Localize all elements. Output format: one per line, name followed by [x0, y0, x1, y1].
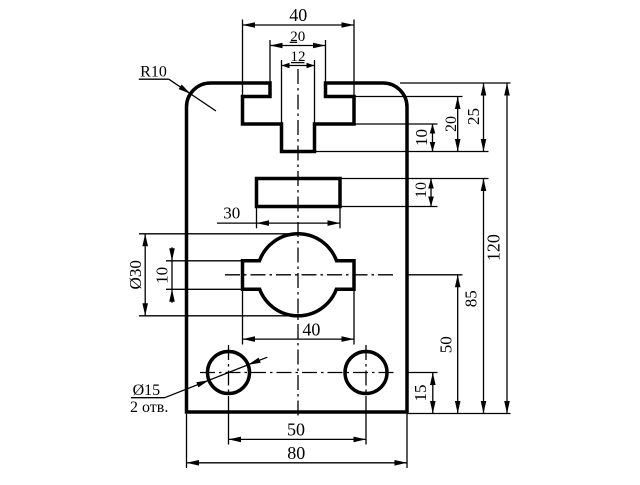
svg-text:80: 80	[287, 443, 305, 463]
hole Ø15 right	[345, 352, 387, 394]
dimension 40 (top slot opening width at step)	[243, 24, 355, 26]
extension line right: rect slot bottom level	[340, 206, 438, 208]
holes horizontal centerline	[200, 372, 398, 374]
extension line left: notch bottom level	[166, 288, 243, 290]
leader R10 with shelf	[139, 78, 169, 80]
svg-text:10: 10	[152, 267, 171, 284]
central hole Ø30 with side notches 40x10	[243, 234, 355, 316]
left hole vertical centerline	[228, 345, 230, 400]
right hole vertical centerline	[365, 345, 367, 400]
extension line mid-40 right	[353, 291, 355, 345]
dimension 30 (rect slot width)	[217, 222, 340, 224]
extension line 50-dim from right hole	[365, 400, 367, 445]
main vertical centerline	[297, 69, 299, 418]
dimension 80 (overall width)	[187, 462, 408, 464]
dimension 25 (slot total depth)	[483, 83, 485, 152]
dimension 50 (holes spacing)	[229, 438, 367, 440]
circle horizontal centerline	[225, 274, 397, 276]
underline of 12	[291, 62, 305, 64]
svg-text:120: 120	[484, 234, 504, 261]
svg-text:50: 50	[436, 336, 455, 353]
extension line 30-dim right	[339, 208, 341, 228]
extension line 12-dim left	[281, 60, 283, 124]
dimension 15 (hole center from bottom)	[432, 373, 434, 414]
extension line mid-40 left	[242, 291, 244, 345]
extension line right: circle center level	[407, 274, 463, 276]
extension line 20-dim left	[269, 40, 271, 83]
dimension 20 (slot depth from step)	[457, 97, 459, 152]
extension line right: slot step2 level	[354, 123, 438, 125]
dimension 40 (notch overall width)	[243, 338, 355, 340]
dimension 10 (rect slot height, right)	[430, 179, 432, 207]
svg-text:2 отв.: 2 отв.	[130, 399, 168, 416]
svg-text:40: 40	[289, 5, 307, 25]
svg-text:R10: R10	[140, 63, 167, 80]
svg-text:10: 10	[412, 129, 431, 146]
svg-text:10: 10	[413, 182, 430, 198]
extension line right: top edge level	[400, 82, 511, 84]
extension line 40-dim left	[242, 20, 244, 97]
hole Ø15 left	[208, 352, 250, 394]
extension line right: slot bottom level	[315, 151, 489, 153]
dimension 20 (top slot opening)	[270, 45, 326, 47]
leader Ø15 with shelf	[131, 397, 165, 399]
extension line right: slot step1 level	[354, 96, 463, 98]
svg-text:Ø30: Ø30	[126, 260, 145, 289]
extension line right: bottom edge level	[407, 413, 511, 415]
svg-text:Ø15: Ø15	[133, 382, 161, 399]
extension line 30-dim left	[256, 208, 258, 228]
svg-text:50: 50	[287, 419, 305, 439]
dimension 10 (narrow slot depth, top right)	[432, 124, 434, 152]
extension line 80-dim left	[186, 414, 188, 468]
extension line left: notch top level	[166, 260, 243, 262]
svg-text:40: 40	[302, 320, 320, 340]
svg-text:15: 15	[411, 385, 430, 402]
extension line left: circle bottom level	[139, 315, 296, 317]
dimension 120 (overall height)	[506, 83, 508, 414]
extension line right: hole center level	[407, 372, 438, 374]
dimension 50 (circle center from bottom)	[457, 275, 459, 414]
dimension 10 (notch height, left)	[171, 261, 173, 290]
svg-text:25: 25	[464, 108, 483, 125]
dimension Ø30 (circle diameter)	[144, 234, 146, 316]
extension line 80-dim right	[406, 414, 408, 468]
part outline (main plate with stepped top slot, rounded corners R10)	[187, 83, 408, 412]
rectangular slot 30x10	[257, 179, 341, 207]
svg-text:20: 20	[443, 116, 460, 132]
svg-text:30: 30	[223, 204, 240, 223]
extension line right: rect slot top level	[340, 178, 489, 180]
extension line left: circle top level	[139, 233, 296, 235]
dimension 12 (narrow slot width)	[282, 65, 315, 67]
extension line 12-dim right	[314, 60, 316, 124]
extension line 40-dim right	[353, 20, 355, 97]
dimension 85 (rect slot top from bottom)	[483, 179, 485, 414]
extension line 50-dim from left hole	[228, 400, 230, 445]
svg-text:85: 85	[462, 290, 481, 307]
underline of 20	[290, 41, 298, 43]
extension line 20-dim right	[325, 40, 327, 83]
